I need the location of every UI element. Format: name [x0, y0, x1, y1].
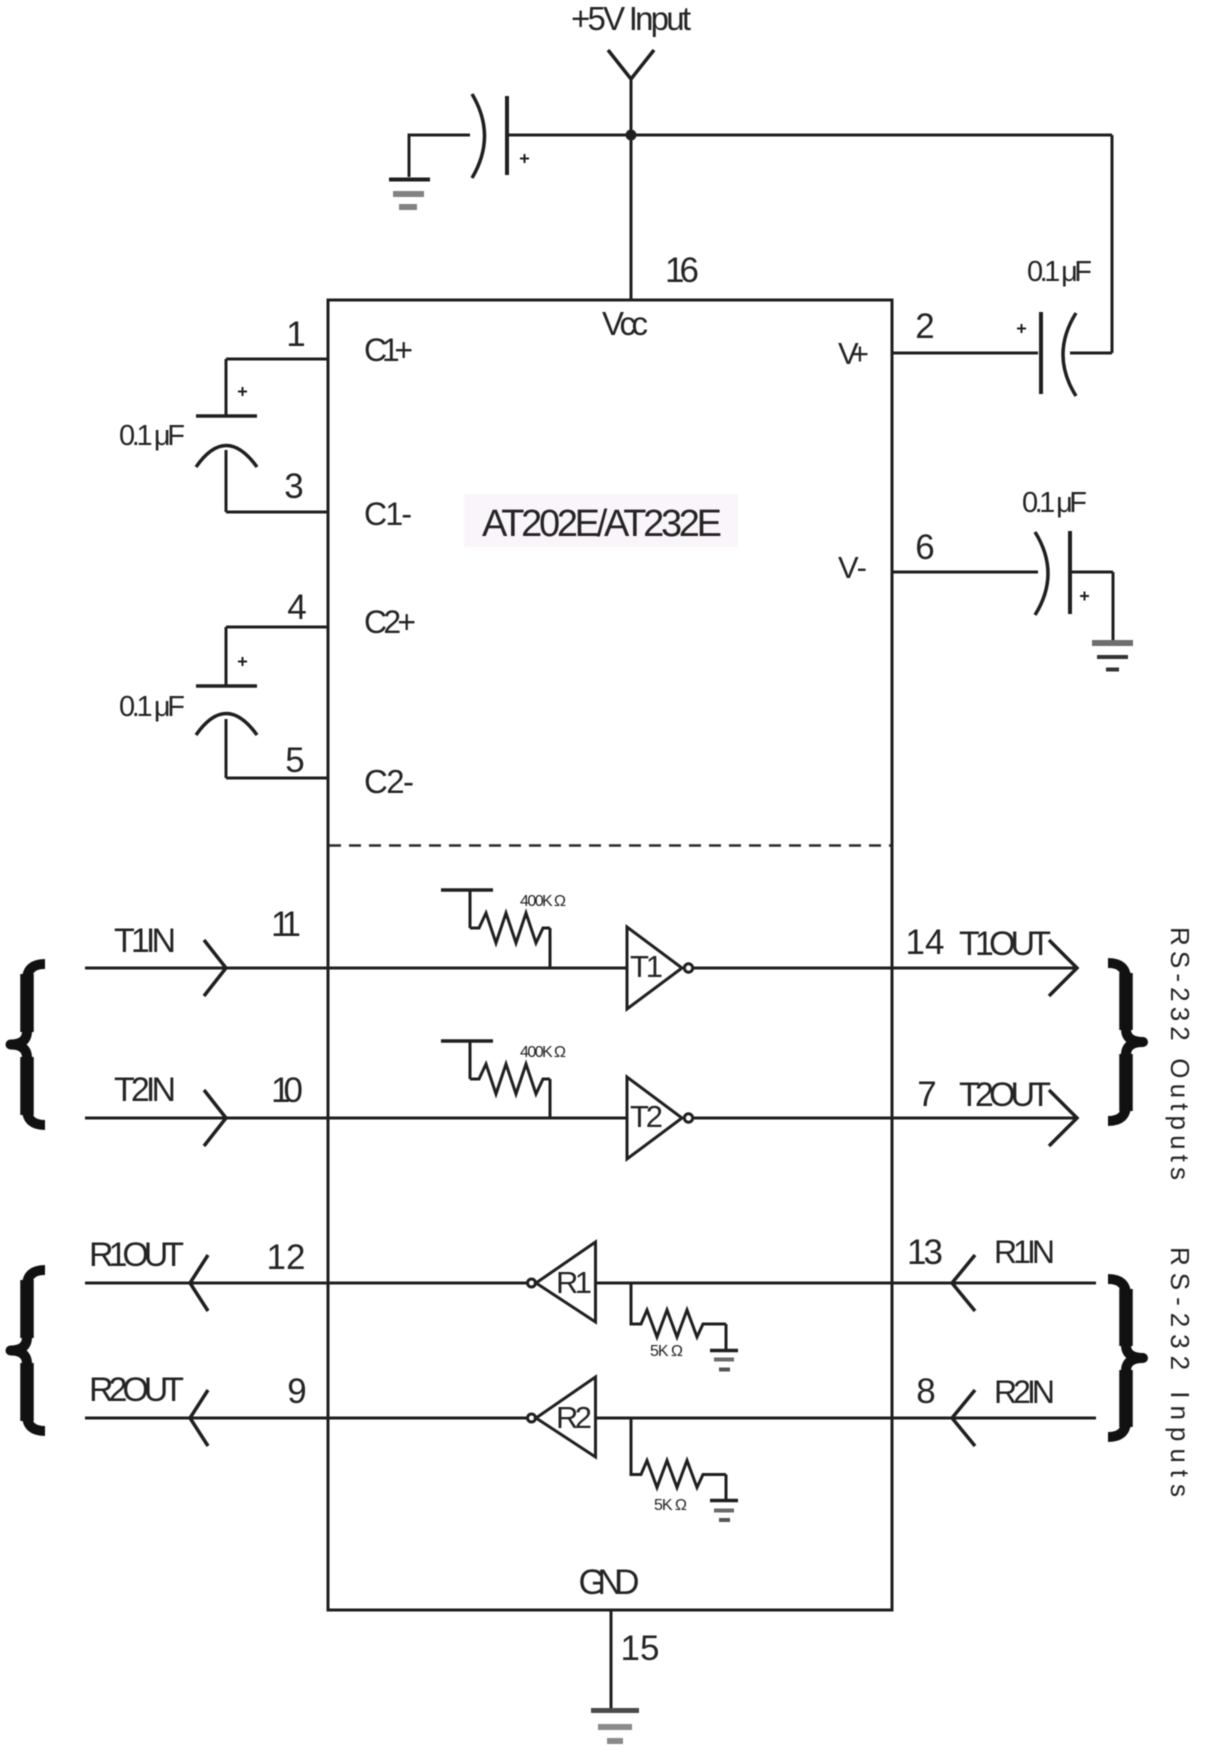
svg-text:400K Ω: 400K Ω — [520, 893, 566, 910]
arrow chevron R2OUT — [190, 1390, 208, 1446]
svg-text:11: 11 — [271, 905, 301, 944]
brace right (RS-232 outputs) thick mid — [1119, 973, 1133, 1111]
brace right (RS-232 inputs) — [1108, 1279, 1143, 1437]
wire T1OUT row — [693, 967, 1077, 970]
chip name AT202E/AT232E (highlight) — [464, 494, 738, 547]
wire pin 4 C2+ — [226, 626, 328, 629]
brace left (RxOUT group) thick mid — [20, 1280, 34, 1421]
svg-text:12: 12 — [267, 1238, 306, 1277]
brace left (TxIN group) — [11, 964, 46, 1125]
wire R2IN row — [596, 1417, 1097, 1420]
svg-text:C1+: C1+ — [364, 332, 413, 368]
svg-text:1: 1 — [286, 315, 305, 354]
arrow chevron T2IN — [204, 1090, 226, 1146]
capacitor C5 0.1uF bypass (curved negative plate) — [472, 94, 485, 178]
svg-text:T2IN: T2IN — [114, 1071, 176, 1109]
wire R2OUT row — [85, 1417, 527, 1420]
wire C5 to ground — [409, 135, 470, 177]
resistor 5K (R1 input) — [631, 1283, 726, 1349]
svg-text:3: 3 — [284, 467, 303, 506]
svg-text:R2IN: R2IN — [994, 1374, 1055, 1410]
wire T2OUT row — [693, 1117, 1077, 1120]
svg-text:400K Ω: 400K Ω — [520, 1044, 566, 1061]
resistor 400K (T2 pull-up) — [441, 1041, 550, 1117]
inverter bubble T2 — [684, 1114, 692, 1122]
svg-text:10: 10 — [271, 1071, 303, 1110]
ground symbol (R2 5K) — [710, 1501, 738, 1521]
buffer T1 — [627, 927, 682, 1009]
svg-text:4: 4 — [287, 588, 306, 627]
arrow chevron R1IN — [952, 1255, 975, 1311]
wire pin 3 C1- — [226, 511, 328, 514]
arrow chevron T2OUT — [1049, 1090, 1077, 1146]
svg-text:GND: GND — [579, 1563, 640, 1602]
svg-text:16: 16 — [665, 251, 699, 290]
brace right (RS-232 inputs) thick mid — [1119, 1289, 1133, 1427]
svg-text:R2: R2 — [556, 1400, 592, 1435]
capacitor C5 positive plate — [505, 96, 509, 175]
wire pin 15 GND — [610, 1610, 613, 1708]
svg-text:T1IN: T1IN — [114, 922, 176, 960]
wire right riser to V+ capacitor — [1111, 135, 1114, 353]
inverter bubble R2 — [528, 1414, 536, 1422]
wire R1OUT row — [85, 1282, 527, 1285]
resistor 5K (R2 input) — [631, 1418, 726, 1499]
svg-text:V-: V- — [838, 550, 867, 585]
svg-text:R1OUT: R1OUT — [89, 1236, 184, 1274]
svg-text:5K Ω: 5K Ω — [650, 1343, 683, 1360]
inverter bubble R1 — [528, 1279, 536, 1287]
svg-text:C1-: C1- — [364, 496, 412, 532]
svg-text:T1: T1 — [630, 949, 663, 984]
svg-text:R2OUT: R2OUT — [89, 1371, 184, 1409]
svg-text:T2: T2 — [630, 1099, 663, 1134]
wire pin 2 V+ — [892, 352, 1038, 355]
wire pin 1 C1+ — [226, 358, 328, 361]
svg-text:9: 9 — [287, 1372, 306, 1411]
node +5V input terminal symbol — [608, 50, 654, 135]
svg-text:R1IN: R1IN — [994, 1234, 1055, 1270]
buffer T2 — [627, 1077, 682, 1159]
capacitor C1 0.1uF — [196, 359, 257, 512]
svg-text:Vcc: Vcc — [602, 305, 648, 342]
svg-text:5K Ω: 5K Ω — [654, 1497, 687, 1514]
brace left (RxOUT group) — [11, 1270, 46, 1431]
svg-text:R1: R1 — [556, 1265, 592, 1300]
svg-text:T2OUT: T2OUT — [959, 1076, 1051, 1114]
capacitor C5 plus sign — [520, 154, 529, 163]
wire pin 5 C2- — [226, 777, 328, 780]
svg-text:C2+: C2+ — [364, 604, 416, 640]
wire +5V rail horizontal — [505, 134, 1112, 137]
ground symbol (pin 15) — [591, 1711, 639, 1742]
resistor 400K (T1 pull-up) — [441, 890, 550, 967]
arrow chevron T1IN — [204, 940, 226, 996]
svg-text:+5V Input: +5V Input — [571, 0, 691, 37]
receiver R1 — [536, 1242, 596, 1322]
svg-text:T1OUT: T1OUT — [959, 925, 1051, 963]
wire T1IN row — [85, 967, 627, 970]
svg-text:0.1 μF: 0.1 μF — [119, 691, 185, 723]
ground symbol (top left) — [389, 180, 430, 208]
arrow chevron T1OUT — [1049, 940, 1077, 996]
brace left (TxIN group) thick mid — [20, 974, 34, 1115]
inverter bubble T1 — [684, 964, 692, 972]
chip U1 AT202E/AT232E body — [328, 300, 892, 1610]
receiver R2 — [536, 1377, 596, 1457]
svg-text:0.1 μF: 0.1 μF — [1022, 487, 1087, 519]
wire T2IN row — [85, 1117, 627, 1120]
svg-text:13: 13 — [907, 1233, 943, 1272]
svg-text:0.1 μF: 0.1 μF — [1027, 256, 1092, 288]
wire R1IN row — [596, 1282, 1097, 1285]
capacitor C2 0.1uF — [196, 627, 257, 778]
brace right (RS-232 outputs) — [1108, 963, 1143, 1121]
junction dot at Vcc node — [626, 130, 637, 141]
arrow chevron R1OUT — [190, 1255, 208, 1311]
svg-text:0.1 μF: 0.1 μF — [119, 420, 185, 452]
arrow chevron R2IN — [952, 1390, 975, 1446]
wire pin 6 V- — [892, 571, 1038, 574]
svg-text:AT202E/AT232E: AT202E/AT232E — [482, 503, 722, 545]
chip internal dashed divider — [329, 844, 891, 847]
svg-text:14: 14 — [906, 923, 945, 962]
svg-text:7: 7 — [917, 1075, 936, 1114]
wire Vcc to pin 16 — [630, 135, 633, 300]
ground symbol (R1 5K) — [710, 1351, 738, 1370]
svg-text:V+: V+ — [838, 336, 869, 371]
capacitor C4 0.1uF (V- to ground) — [1035, 531, 1113, 640]
svg-text:C2-: C2- — [364, 763, 414, 800]
ground symbol (V- capacitor) — [1092, 643, 1133, 670]
svg-text:5: 5 — [285, 741, 304, 780]
svg-text:6: 6 — [915, 528, 934, 567]
capacitor C3 0.1uF (V+ to +5V) — [1017, 312, 1112, 396]
svg-text:15: 15 — [621, 1629, 660, 1668]
svg-text:8: 8 — [916, 1372, 935, 1411]
svg-text:2: 2 — [915, 307, 934, 346]
